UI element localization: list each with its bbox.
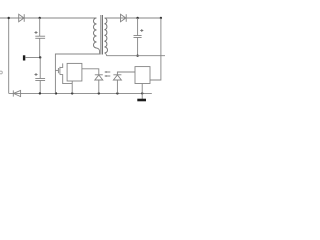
optocoupler LED right — [113, 72, 135, 93]
wire U2 bottom pin — [141, 84, 143, 100]
ground bar — [137, 99, 146, 102]
input terminal circle — [0, 71, 2, 74]
wire top-left rail — [0, 17, 97, 19]
diode D1 — [19, 14, 25, 22]
IC U1 box — [67, 63, 82, 81]
node dot return — [136, 55, 138, 57]
optocoupler arrows — [104, 71, 110, 77]
wire U1 right pin to opto — [82, 69, 99, 75]
transformer TR1 primary winding — [94, 18, 97, 48]
transformer core — [101, 15, 103, 55]
capacitor C3 — [35, 58, 46, 94]
capacitor C1 — [35, 18, 46, 58]
wire primary bottom to switch — [55, 48, 99, 93]
transistor Q1 source wire — [60, 75, 72, 84]
node dot output — [136, 17, 138, 19]
diode D2 — [121, 14, 127, 22]
capacitor C2 — [134, 18, 144, 56]
node dots on bottom rail — [39, 92, 41, 94]
transistor Q1 gate bar — [57, 68, 59, 73]
diode D3 — [13, 90, 20, 96]
node B dot — [39, 17, 41, 19]
node A dot — [8, 17, 10, 19]
transistor Q1 channel bar — [59, 67, 61, 75]
bottom rail — [9, 92, 152, 94]
node X dot — [39, 56, 41, 58]
IC U2 box — [135, 67, 150, 84]
wire U1 bottom pin — [71, 81, 73, 93]
terminal T1 thick bar — [23, 55, 25, 60]
transistor Q1 drain stub — [60, 63, 63, 67]
wire left rail — [8, 18, 10, 93]
transistor Q1 gate lead — [55, 69, 58, 71]
wire right rail — [150, 18, 161, 80]
optocoupler photodiode left — [95, 75, 103, 94]
node dot top right corner — [160, 17, 162, 19]
wire secondary bottom return — [105, 53, 166, 56]
transformer TR1 secondary winding — [105, 18, 108, 53]
wire T1 to node X — [25, 57, 40, 59]
wire secondary top to D2 — [105, 17, 161, 19]
